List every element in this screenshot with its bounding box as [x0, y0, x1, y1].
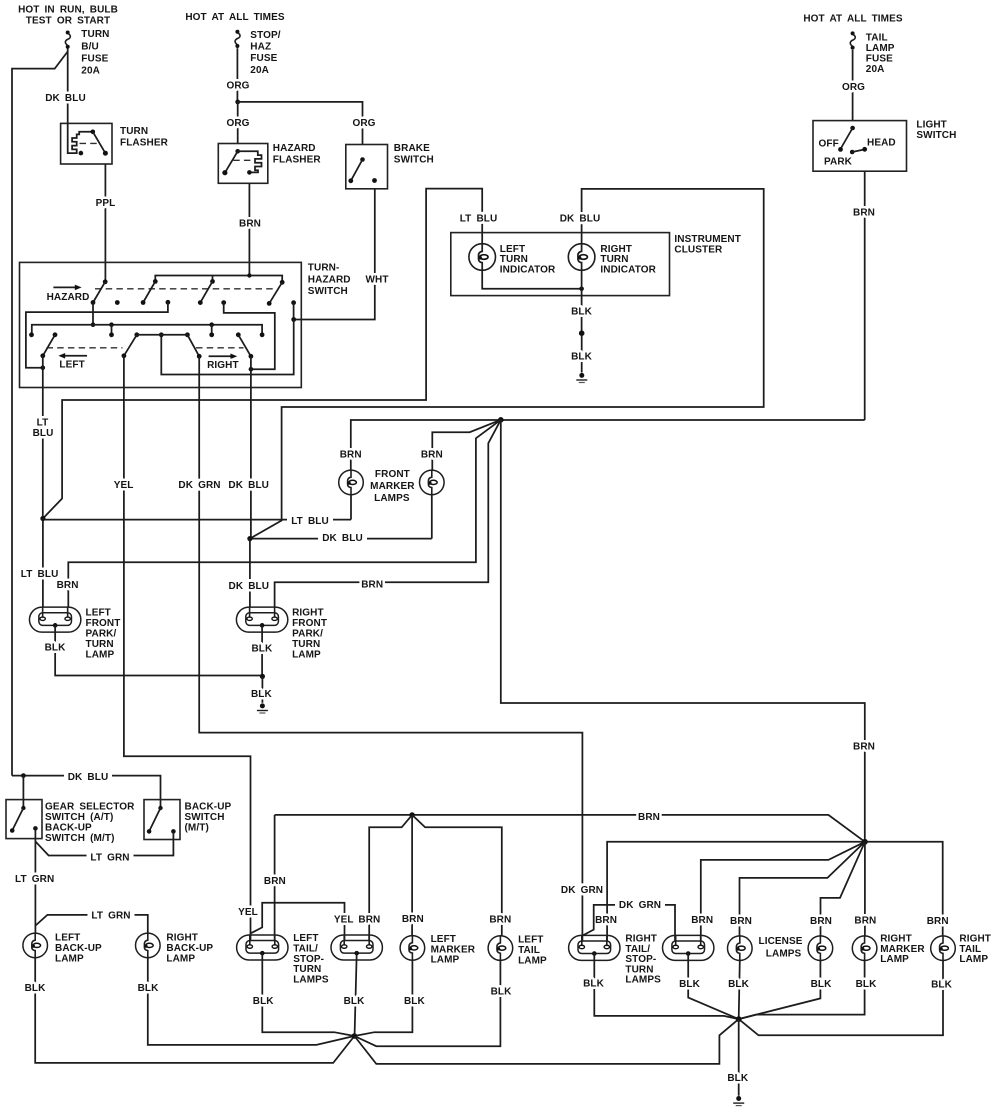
lamp right tail/stop-turn c4	[663, 935, 714, 960]
wire BLK right back-up	[138, 958, 355, 1045]
svg-text:YEL: YEL	[114, 480, 134, 491]
svg-text:LT GRN: LT GRN	[15, 874, 54, 885]
svg-text:BACK-UP: BACK-UP	[166, 943, 213, 954]
wire BRN to left tail/stop lamp (c1)	[264, 815, 286, 941]
svg-text:BLU: BLU	[33, 428, 54, 439]
svg-text:RIGHT: RIGHT	[207, 360, 239, 371]
lamp left marker	[400, 934, 476, 966]
SECTION: cluster	[43, 189, 764, 539]
wire BLK to ground	[571, 336, 593, 373]
wire LT GRN switch link	[35, 831, 173, 863]
svg-text:PARK/: PARK/	[292, 629, 323, 640]
wire BLK to front ground	[251, 676, 273, 702]
svg-text:BRN: BRN	[927, 916, 949, 927]
brake switch S2	[346, 143, 434, 189]
junction LT BLU	[40, 516, 45, 521]
svg-text:LT BLU: LT BLU	[21, 569, 59, 580]
wire ORG to hazard flasher	[237, 102, 239, 144]
svg-text:LAMP: LAMP	[959, 954, 988, 965]
svg-text:HAZARD: HAZARD	[308, 274, 351, 285]
svg-text:BLK: BLK	[931, 980, 953, 991]
wire LT BLU output of switch	[33, 356, 54, 519]
junction J1 front BRN distribution	[498, 417, 504, 423]
svg-text:BRN: BRN	[853, 742, 875, 753]
wire BLK right marker	[739, 961, 877, 1020]
svg-text:LAMP: LAMP	[431, 955, 460, 966]
svg-text:BACK-UP: BACK-UP	[55, 943, 102, 954]
svg-text:LT BLU: LT BLU	[291, 516, 329, 527]
wire hazard feed bus (row 1)	[155, 276, 282, 283]
svg-text:20A: 20A	[866, 64, 885, 75]
svg-text:CLUSTER: CLUSTER	[674, 245, 723, 256]
splice in BLK	[579, 330, 585, 336]
svg-text:SWITCH (M/T): SWITCH (M/T)	[45, 833, 115, 844]
wire LT BLU route to cluster	[43, 189, 502, 519]
svg-text:BACK-UP: BACK-UP	[185, 802, 232, 813]
svg-text:LAMP: LAMP	[55, 953, 84, 964]
lamp left tail/stop-turn c1	[237, 933, 329, 985]
svg-text:DK BLU: DK BLU	[68, 772, 109, 783]
junction ORG split	[235, 100, 240, 105]
svg-text:MARKER: MARKER	[370, 481, 415, 492]
net HOT IN RUN feed label	[18, 5, 118, 27]
svg-text:HOT IN RUN, BULB: HOT IN RUN, BULB	[18, 5, 118, 16]
lamp right tail	[931, 934, 991, 966]
svg-text:LAMPS: LAMPS	[766, 949, 802, 960]
SECTION: front lamps	[17, 417, 875, 842]
svg-text:ORG: ORG	[226, 118, 249, 129]
svg-text:LT GRN: LT GRN	[90, 853, 129, 864]
back-up switch S5	[144, 800, 232, 840]
lamp left back-up	[23, 932, 102, 964]
wire BLK c2	[344, 953, 366, 1034]
wire BLK c4	[679, 953, 739, 1019]
wire bus B (hazard output)	[32, 303, 262, 335]
lamp license 1	[728, 936, 803, 961]
fuse F2 STOP/HAZ FUSE 20A	[235, 30, 281, 76]
contact row1 to bus A	[26, 300, 170, 370]
wire ORG from fuse F3 to light switch	[842, 50, 865, 121]
SECTION: feeds and fuses	[12, 5, 903, 776]
svg-text:BRN: BRN	[361, 580, 383, 591]
lamp left turn indicator	[469, 244, 556, 276]
svg-text:LT GRN: LT GRN	[91, 911, 130, 922]
blade S1-a (turn feed)	[91, 279, 108, 305]
SECTION: turn-hazard switch	[20, 262, 608, 941]
svg-text:PARK/: PARK/	[86, 629, 117, 640]
contact row1 isolated	[115, 300, 120, 305]
svg-text:TURN: TURN	[86, 639, 114, 650]
dashed hazard row	[95, 288, 275, 290]
wire DK BLU feed to back-up switches	[12, 771, 161, 809]
svg-text:BRN: BRN	[638, 812, 660, 823]
wire BLK right park	[251, 625, 273, 676]
svg-text:(M/T): (M/T)	[185, 823, 209, 834]
wire LT BLU down to left park lamp	[17, 519, 63, 608]
svg-text:BRN: BRN	[57, 580, 79, 591]
light switch S3	[813, 120, 956, 172]
svg-text:TAIL: TAIL	[866, 33, 888, 44]
svg-text:INDICATOR: INDICATOR	[500, 265, 556, 276]
wire BRN to right marker	[854, 842, 876, 936]
blade S1-LT (LT BLU output)	[40, 335, 55, 358]
svg-text:BRN: BRN	[358, 914, 380, 925]
wire BLK to rear ground	[727, 1019, 749, 1096]
svg-text:BLK: BLK	[253, 996, 275, 1007]
wire ORG to brake switch	[238, 102, 363, 145]
svg-text:BLK: BLK	[251, 689, 273, 700]
junction BRN feed on hazard bus	[247, 273, 251, 277]
lamp license 2	[808, 936, 833, 961]
svg-text:INDICATOR: INDICATOR	[600, 265, 656, 276]
svg-text:BLK: BLK	[583, 979, 605, 990]
lamp right front park/turn	[236, 607, 327, 660]
svg-text:SWITCH: SWITCH	[916, 130, 956, 141]
svg-text:BACK-UP: BACK-UP	[45, 823, 92, 834]
svg-text:BRN: BRN	[691, 915, 713, 926]
svg-text:DK GRN: DK GRN	[561, 885, 603, 896]
lamp right turn indicator	[568, 244, 656, 276]
svg-text:STOP/: STOP/	[250, 30, 280, 41]
wire BRN to left front park lamp	[68, 420, 501, 608]
svg-text:BLK: BLK	[344, 996, 366, 1007]
svg-text:DK GRN: DK GRN	[178, 480, 220, 491]
svg-text:DK BLU: DK BLU	[45, 93, 86, 104]
svg-text:OFF: OFF	[819, 138, 839, 149]
junction right BLK fan	[736, 1016, 742, 1022]
svg-text:BLK: BLK	[811, 979, 833, 990]
wire DK BLU branch to left border down to back-up switches	[12, 52, 68, 776]
wire DK BLU from fuse F1 to turn flasher	[45, 49, 86, 124]
junction cluster grounds	[579, 287, 584, 292]
svg-text:BLK: BLK	[727, 1073, 749, 1084]
wire BLK left park	[45, 625, 263, 675]
svg-text:LT BLU: LT BLU	[460, 213, 498, 224]
wire LT GRN branch to right back-up lamp	[35, 909, 148, 933]
wire DK BLU down to right park lamp	[225, 539, 274, 608]
lamp right front marker	[420, 450, 445, 539]
svg-text:LAMP: LAMP	[292, 650, 321, 661]
wire BLK left tail	[354, 960, 512, 1046]
wire WHT from brake switch to turn-hazard switch	[294, 189, 389, 320]
wire DK GRN jumper c3 to c4	[583, 899, 675, 941]
svg-text:RIGHT: RIGHT	[292, 608, 324, 619]
svg-text:LEFT: LEFT	[59, 359, 84, 370]
svg-text:LEFT: LEFT	[518, 934, 543, 945]
junction left BLK fan	[352, 1033, 358, 1039]
fuse F1 TURN B/U FUSE 20A	[65, 29, 109, 77]
wire cluster ground link	[482, 270, 581, 289]
wire DK GRN output of switch	[175, 356, 608, 941]
ground G2 (front)	[257, 703, 268, 713]
lamp right back-up	[136, 932, 214, 964]
wire to gear selector switch	[22, 776, 24, 808]
turn flasher U1	[61, 123, 169, 164]
svg-text:ORG: ORG	[226, 81, 249, 92]
contact row1 to WHT node	[161, 300, 296, 374]
svg-text:BLK: BLK	[138, 983, 160, 994]
wire BRN to right tail/stop c4	[691, 842, 865, 941]
svg-text:HOT AT ALL TIMES: HOT AT ALL TIMES	[185, 12, 285, 23]
blade S1-DKGRN	[187, 335, 201, 359]
wire BLK left back-up	[25, 958, 355, 1063]
wire BRN to left tail lamp	[412, 815, 511, 936]
junction DK BLU backup	[21, 773, 26, 778]
wire BLK c3	[583, 953, 739, 1019]
wire BRN hazard flasher to switch	[239, 183, 261, 275]
svg-text:LAMP: LAMP	[166, 953, 195, 964]
lamp right marker	[852, 934, 925, 966]
left arrow	[58, 353, 87, 370]
junction DK BLU	[247, 536, 252, 541]
svg-text:HOT AT ALL TIMES: HOT AT ALL TIMES	[803, 14, 903, 25]
wire BRN main rear feed	[501, 420, 875, 842]
ground G1 (cluster)	[576, 373, 587, 383]
svg-text:BLK: BLK	[251, 644, 273, 655]
svg-text:LT: LT	[37, 417, 49, 428]
svg-text:LAMP: LAMP	[880, 954, 909, 965]
svg-text:BRN: BRN	[853, 208, 875, 219]
svg-text:BRN: BRN	[340, 450, 362, 461]
lamp left tail	[488, 934, 547, 966]
svg-text:BLK: BLK	[571, 307, 593, 318]
svg-text:LAMPS: LAMPS	[293, 974, 329, 985]
svg-text:HAZ: HAZ	[250, 42, 271, 53]
blade S1-d	[267, 280, 285, 306]
svg-text:SWITCH: SWITCH	[394, 155, 434, 166]
svg-text:YEL: YEL	[238, 907, 258, 918]
wire BRN to right front park lamp	[275, 420, 501, 608]
svg-text:BLK: BLK	[679, 979, 701, 990]
svg-text:SWITCH: SWITCH	[308, 286, 348, 297]
svg-text:TURN-: TURN-	[308, 263, 340, 274]
svg-text:BRN: BRN	[489, 915, 511, 926]
svg-text:BRN: BRN	[402, 914, 424, 925]
blade S1-b	[141, 279, 158, 305]
wire BLK license 1	[728, 961, 750, 1020]
wire BRN to second left tail/stop lamp (c2)	[358, 815, 412, 941]
svg-text:FUSE: FUSE	[81, 54, 108, 65]
lamp left tail/stop-turn c2	[331, 935, 382, 960]
svg-text:INSTRUMENT: INSTRUMENT	[674, 234, 741, 245]
svg-text:BRN: BRN	[730, 916, 752, 927]
svg-text:20A: 20A	[81, 66, 100, 77]
svg-text:BRAKE: BRAKE	[394, 143, 430, 154]
instrument cluster box	[451, 233, 741, 296]
svg-text:LICENSE: LICENSE	[759, 936, 803, 947]
svg-text:PPL: PPL	[96, 198, 116, 209]
contacts row 2	[29, 332, 264, 337]
svg-text:LAMP: LAMP	[86, 650, 115, 661]
wire BRN from light switch down to front BRN rail	[853, 171, 875, 420]
wire BLK left marker	[354, 960, 425, 1036]
blade S1-DKBLU	[238, 335, 253, 359]
lamp right tail/stop-turn c3	[569, 934, 662, 986]
wire BLK right tail	[739, 961, 953, 1036]
svg-text:DK BLU: DK BLU	[229, 581, 270, 592]
svg-text:FUSE: FUSE	[250, 53, 277, 64]
svg-text:BRN: BRN	[854, 916, 876, 927]
svg-text:DK BLU: DK BLU	[322, 533, 363, 544]
wire YEL jumper c1 to c2	[250, 903, 354, 941]
SECTION: flashers and switches	[61, 120, 957, 420]
svg-text:DK GRN: DK GRN	[619, 900, 661, 911]
svg-text:FRONT: FRONT	[86, 618, 121, 629]
svg-text:HAZARD: HAZARD	[273, 143, 316, 154]
svg-text:TEST OR START: TEST OR START	[26, 15, 110, 26]
svg-text:LEFT: LEFT	[55, 932, 80, 943]
wire PPL from turn flasher to turn-hazard switch	[96, 164, 116, 282]
blade S1-YEL	[122, 335, 137, 358]
svg-text:LEFT: LEFT	[86, 608, 111, 619]
wire BLK license 2	[739, 961, 832, 1020]
blade S1-c	[198, 279, 215, 305]
wire BRN to right tail	[865, 842, 949, 936]
svg-text:BRN: BRN	[264, 876, 286, 887]
svg-text:SWITCH: SWITCH	[185, 812, 225, 823]
wire BRN to right front marker	[432, 420, 501, 470]
svg-text:TURN: TURN	[120, 126, 148, 137]
junction BRN left rear	[409, 812, 414, 817]
svg-text:LIGHT: LIGHT	[916, 120, 947, 131]
svg-text:BLK: BLK	[25, 983, 47, 994]
svg-text:GEAR SELECTOR: GEAR SELECTOR	[45, 802, 135, 813]
svg-text:DK BLU: DK BLU	[560, 214, 601, 225]
right arrow	[207, 354, 239, 372]
wire stub to blade 3	[212, 276, 214, 282]
wire BRN rail from light switch across top of front lamps	[351, 420, 865, 470]
wire BRN to right tail/stop c3	[595, 842, 865, 941]
wire DK BLU route to cluster	[250, 189, 764, 539]
svg-text:LAMP: LAMP	[518, 955, 547, 966]
svg-text:BLK: BLK	[571, 352, 593, 363]
wire DK BLU output of switch	[225, 356, 274, 538]
label front marker lamps	[370, 469, 415, 504]
wire BLK c1	[253, 953, 355, 1036]
svg-text:BRN: BRN	[421, 450, 443, 461]
svg-text:PARK: PARK	[824, 156, 853, 167]
hazard arrow	[47, 285, 90, 304]
svg-text:TURN: TURN	[292, 639, 320, 650]
SECTION: rear	[6, 771, 991, 1106]
wire BLK bus to right fan	[354, 1019, 738, 1064]
svg-text:BRN: BRN	[239, 219, 261, 230]
svg-text:FRONT: FRONT	[375, 469, 410, 480]
wire BRN to left marker lamp	[402, 815, 424, 936]
hazard flasher U2	[218, 143, 321, 183]
svg-text:HAZARD: HAZARD	[47, 292, 90, 303]
svg-text:HEAD: HEAD	[867, 137, 896, 148]
junction BLK front	[260, 674, 265, 679]
svg-text:ORG: ORG	[352, 118, 375, 129]
ground G3 (rear)	[733, 1096, 744, 1106]
wire DK BLU front lamp line	[250, 532, 432, 544]
svg-text:20A: 20A	[250, 65, 269, 76]
svg-text:TAIL: TAIL	[518, 945, 540, 956]
svg-text:BLK: BLK	[491, 987, 513, 998]
turn-hazard switch S1 box	[20, 262, 351, 387]
svg-text:BLK: BLK	[728, 979, 750, 990]
gear selector switch S4	[6, 800, 135, 844]
svg-text:FLASHER: FLASHER	[273, 155, 322, 166]
svg-text:ORG: ORG	[842, 82, 865, 93]
wire BRN to license lamp 2	[810, 842, 865, 936]
svg-text:LAMP: LAMP	[866, 43, 895, 54]
svg-text:FRONT: FRONT	[292, 618, 327, 629]
svg-text:YEL: YEL	[334, 915, 354, 926]
svg-text:BLK: BLK	[856, 979, 878, 990]
junction J2 rear BRN distribution	[862, 839, 868, 845]
svg-text:TURN: TURN	[81, 29, 109, 40]
svg-text:BLK: BLK	[404, 996, 426, 1007]
lamp left front marker	[339, 450, 364, 520]
svg-text:BRN: BRN	[595, 915, 617, 926]
svg-text:FUSE: FUSE	[866, 54, 893, 65]
svg-text:B/U: B/U	[81, 41, 99, 52]
svg-text:SWITCH (A/T): SWITCH (A/T)	[45, 812, 113, 823]
wire LT BLU front lamp line	[43, 515, 351, 528]
wire YEL output of switch	[114, 356, 258, 941]
svg-text:BLK: BLK	[45, 643, 67, 654]
svg-text:RIGHT: RIGHT	[166, 932, 198, 943]
wire LT GRN to left back-up lamp	[12, 828, 59, 933]
lamp left front park/turn	[29, 607, 120, 660]
svg-text:WHT: WHT	[365, 275, 388, 286]
wire BLK cluster ground	[571, 270, 593, 331]
svg-text:DK BLU: DK BLU	[228, 480, 269, 491]
svg-text:FLASHER: FLASHER	[120, 138, 169, 149]
svg-text:LAMPS: LAMPS	[374, 493, 410, 504]
dashed row 2	[47, 347, 123, 349]
contact row1 to DK BLU jumper	[221, 300, 274, 371]
svg-text:LAMPS: LAMPS	[625, 975, 661, 986]
wire ORG from fuse F2	[226, 48, 249, 102]
wire BRN rear-left rail	[275, 812, 865, 842]
svg-text:BRN: BRN	[810, 916, 832, 927]
wire BRN to license lamp 1	[730, 842, 865, 936]
fuse F3 TAIL LAMP FUSE 20A	[850, 31, 894, 75]
